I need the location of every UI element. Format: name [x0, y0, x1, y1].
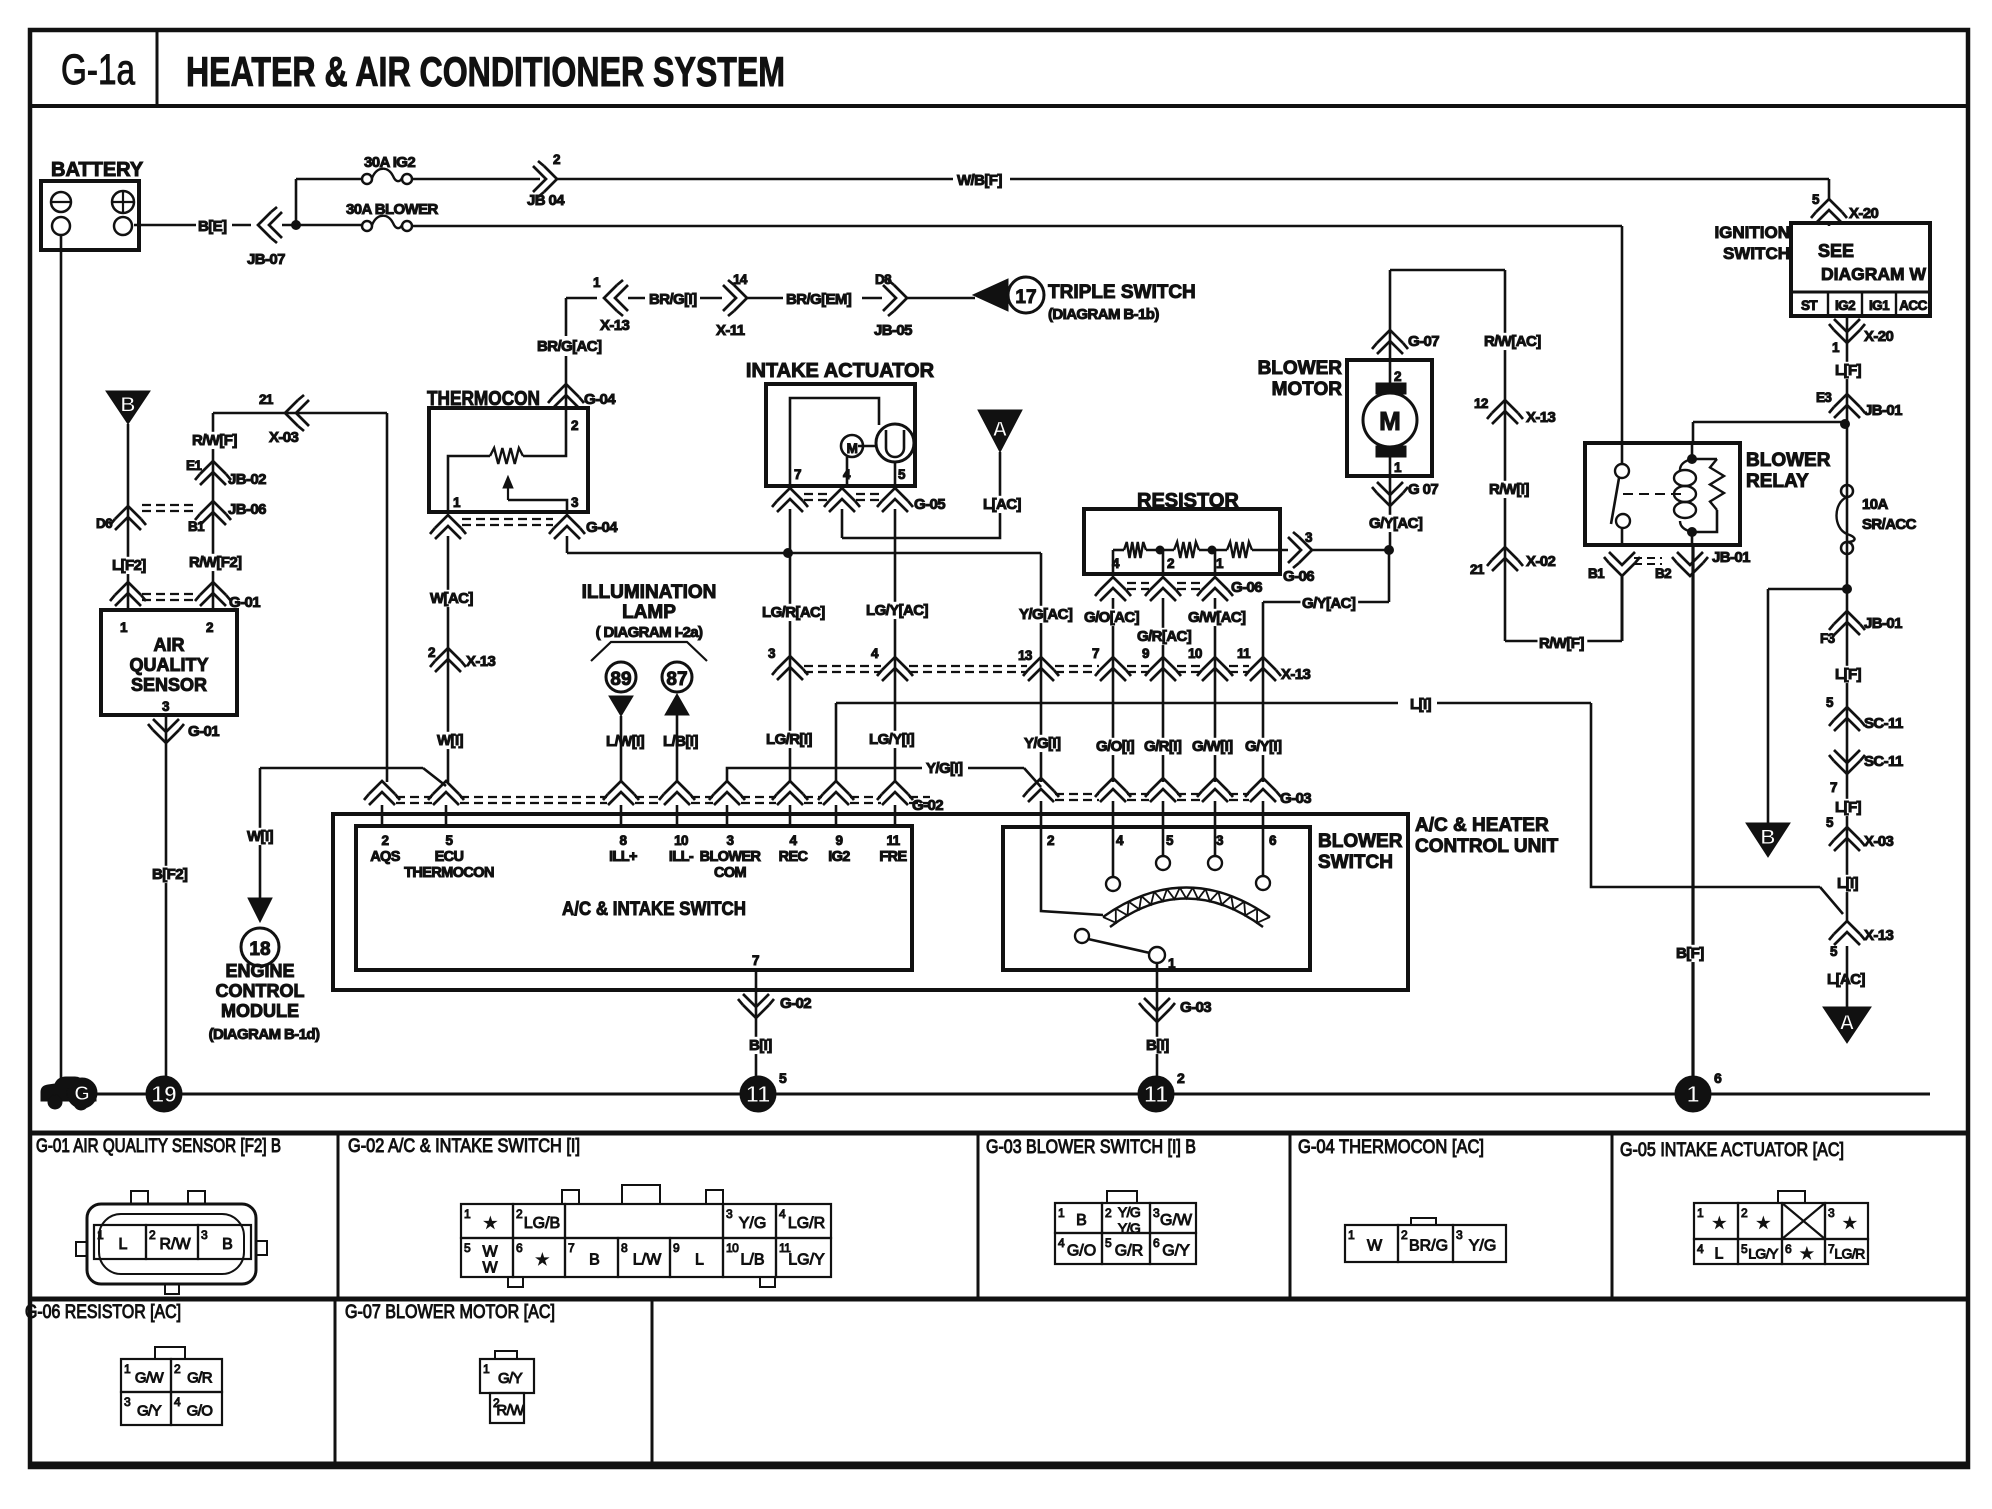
svg-text:4: 4	[871, 646, 879, 661]
svg-text:ECU: ECU	[435, 849, 464, 865]
svg-text:L/B: L/B	[740, 1252, 764, 1269]
svg-text:G-07: G-07	[1408, 333, 1439, 350]
svg-text:INTAKE ACTUATOR: INTAKE ACTUATOR	[746, 360, 935, 382]
svg-text:21: 21	[259, 392, 274, 407]
svg-text:L/W[I]: L/W[I]	[606, 733, 645, 750]
svg-text:1: 1	[593, 275, 601, 290]
svg-text:19: 19	[151, 1081, 177, 1107]
svg-text:2: 2	[1741, 1206, 1748, 1220]
svg-text:G-01 AIR QUALITY SENSOR [F2] B: G-01 AIR QUALITY SENSOR [F2] B	[36, 1136, 281, 1157]
svg-text:X-13: X-13	[600, 317, 630, 334]
svg-text:4: 4	[174, 1395, 181, 1409]
svg-text:1: 1	[1168, 956, 1176, 971]
svg-text:2: 2	[571, 418, 578, 433]
svg-text:M: M	[1379, 406, 1401, 436]
svg-text:G-07 BLOWER MOTOR [AC]: G-07 BLOWER MOTOR [AC]	[345, 1302, 555, 1323]
svg-text:MOTOR: MOTOR	[1272, 379, 1343, 400]
svg-text:L: L	[1715, 1246, 1724, 1263]
svg-text:A/C & INTAKE SWITCH: A/C & INTAKE SWITCH	[562, 899, 746, 920]
svg-text:G/O[I]: G/O[I]	[1096, 738, 1135, 755]
svg-text:R/W[F2]: R/W[F2]	[189, 554, 242, 571]
svg-text:1: 1	[124, 1362, 131, 1376]
svg-text:AIR: AIR	[154, 635, 185, 655]
svg-text:JB-02: JB-02	[228, 471, 266, 488]
svg-text:DIAGRAM W: DIAGRAM W	[1821, 264, 1926, 284]
svg-text:ACC: ACC	[1899, 298, 1927, 313]
svg-text:X-03: X-03	[1864, 833, 1894, 850]
svg-text:E3: E3	[1816, 390, 1832, 405]
svg-text:SWITCH: SWITCH	[1723, 244, 1790, 263]
svg-text:1: 1	[1058, 1206, 1065, 1220]
svg-text:JB 04: JB 04	[527, 192, 565, 209]
svg-text:11: 11	[1237, 646, 1251, 661]
svg-text:G/Y: G/Y	[137, 1403, 162, 1420]
svg-text:R/W[F]: R/W[F]	[1539, 635, 1584, 652]
svg-text:1: 1	[1348, 1228, 1355, 1242]
svg-text:A/C & HEATER: A/C & HEATER	[1415, 815, 1549, 836]
svg-text:3: 3	[1828, 1206, 1835, 1220]
svg-text:2: 2	[1394, 369, 1401, 384]
svg-text:Y/G: Y/G	[1469, 1238, 1497, 1255]
svg-text:G/W: G/W	[135, 1370, 165, 1387]
svg-text:L/B[I]: L/B[I]	[663, 733, 698, 750]
svg-text:B[F2]: B[F2]	[152, 866, 188, 883]
svg-text:B: B	[589, 1252, 600, 1269]
svg-text:3: 3	[726, 1207, 733, 1221]
svg-text:5: 5	[1812, 192, 1820, 207]
svg-text:F3: F3	[1820, 631, 1836, 646]
svg-text:LG/R: LG/R	[1834, 1246, 1865, 1262]
svg-text:B[E]: B[E]	[198, 218, 227, 235]
svg-text:G/W[I]: G/W[I]	[1192, 738, 1233, 755]
svg-text:11: 11	[746, 1081, 771, 1107]
svg-text:2: 2	[428, 645, 435, 660]
svg-text:LG/Y: LG/Y	[1748, 1246, 1779, 1262]
svg-text:3: 3	[1153, 1206, 1160, 1220]
svg-text:B[I]: B[I]	[749, 1037, 772, 1054]
svg-text:3: 3	[124, 1395, 131, 1409]
svg-text:D8: D8	[875, 272, 892, 287]
svg-text:LG/R[I]: LG/R[I]	[766, 731, 812, 748]
svg-text:G/O: G/O	[187, 1403, 213, 1420]
svg-text:4: 4	[843, 467, 851, 482]
svg-text:5: 5	[1826, 815, 1834, 830]
svg-text:30A IG2: 30A IG2	[364, 154, 415, 171]
svg-text:JB-07: JB-07	[247, 251, 285, 268]
svg-text:2: 2	[1167, 556, 1174, 571]
svg-text:G-01: G-01	[188, 723, 219, 740]
svg-text:SEE: SEE	[1818, 241, 1854, 261]
svg-text:7: 7	[794, 467, 801, 482]
svg-text:B[F]: B[F]	[1676, 945, 1704, 962]
svg-text:Y/G: Y/G	[1118, 1204, 1140, 1220]
svg-text:W: W	[482, 1244, 498, 1261]
svg-text:RELAY: RELAY	[1746, 471, 1809, 492]
svg-text:SWITCH: SWITCH	[1318, 852, 1393, 873]
svg-text:R/W: R/W	[496, 1402, 525, 1419]
svg-text:R/W[AC]: R/W[AC]	[1484, 333, 1541, 350]
svg-text:QUALITY: QUALITY	[130, 655, 209, 675]
svg-text:R/W[I]: R/W[I]	[1489, 481, 1529, 498]
svg-text:IGNITION: IGNITION	[1714, 223, 1790, 242]
svg-text:G/R[I]: G/R[I]	[1144, 738, 1182, 755]
svg-text:G/W: G/W	[1160, 1212, 1193, 1229]
svg-text:JB-06: JB-06	[228, 501, 266, 518]
svg-text:G/Y: G/Y	[498, 1370, 523, 1387]
svg-text:18: 18	[249, 939, 270, 960]
svg-text:A: A	[1839, 1011, 1854, 1034]
svg-text:★: ★	[536, 1252, 549, 1269]
svg-text:ILL+: ILL+	[609, 849, 637, 865]
svg-text:1: 1	[97, 1228, 104, 1242]
svg-text:7: 7	[568, 1241, 575, 1255]
svg-text:★: ★	[484, 1215, 497, 1232]
svg-text:7: 7	[1092, 646, 1099, 661]
svg-text:L[I]: L[I]	[1837, 875, 1859, 892]
svg-text:BLOWER: BLOWER	[1258, 358, 1343, 379]
svg-text:IG2: IG2	[828, 849, 850, 865]
svg-text:G/R: G/R	[187, 1370, 213, 1387]
svg-text:3: 3	[571, 495, 579, 510]
svg-text:L[F]: L[F]	[1835, 666, 1862, 683]
svg-text:3: 3	[768, 646, 776, 661]
svg-text:B2: B2	[1655, 566, 1671, 581]
svg-text:G/Y[I]: G/Y[I]	[1245, 738, 1282, 755]
svg-text:L: L	[695, 1252, 704, 1269]
svg-text:W: W	[482, 1260, 498, 1277]
svg-text:3: 3	[727, 833, 735, 848]
svg-text:B[I]: B[I]	[1146, 1037, 1169, 1054]
svg-text:12: 12	[1474, 396, 1488, 411]
svg-text:G/Y[AC]: G/Y[AC]	[1369, 515, 1423, 532]
svg-text:13: 13	[1018, 648, 1033, 663]
svg-text:4: 4	[1697, 1242, 1704, 1256]
svg-text:★: ★	[1800, 1246, 1813, 1263]
svg-text:30A BLOWER: 30A BLOWER	[346, 201, 439, 218]
svg-text:G-02: G-02	[780, 995, 811, 1012]
svg-text:SENSOR: SENSOR	[131, 675, 207, 695]
svg-text:7: 7	[1830, 780, 1837, 795]
svg-text:2: 2	[1177, 1070, 1185, 1086]
svg-text:3: 3	[1456, 1228, 1463, 1242]
svg-text:5: 5	[1826, 695, 1834, 710]
svg-text:BR/G[AC]: BR/G[AC]	[537, 338, 602, 355]
svg-text:X-13: X-13	[1864, 927, 1894, 944]
svg-text:L[F]: L[F]	[1835, 362, 1862, 379]
svg-text:5: 5	[898, 467, 906, 482]
svg-text:7: 7	[752, 953, 759, 968]
svg-text:1: 1	[1697, 1206, 1704, 1220]
svg-text:G-06 RESISTOR [AC]: G-06 RESISTOR [AC]	[25, 1302, 181, 1323]
svg-text:BR/G: BR/G	[1409, 1238, 1448, 1255]
svg-text:14: 14	[733, 272, 748, 287]
svg-text:Y/G: Y/G	[739, 1215, 767, 1232]
svg-text:B: B	[120, 393, 135, 416]
svg-text:10: 10	[726, 1241, 739, 1255]
svg-text:X-02: X-02	[1526, 553, 1556, 570]
svg-text:5: 5	[1741, 1242, 1748, 1256]
svg-text:★: ★	[1757, 1215, 1770, 1232]
svg-text:5: 5	[1166, 833, 1174, 848]
svg-text:E1: E1	[186, 458, 202, 473]
svg-text:TRIPLE SWITCH: TRIPLE SWITCH	[1048, 282, 1196, 303]
svg-text:87: 87	[666, 669, 687, 690]
svg-text:LG/B: LG/B	[524, 1215, 560, 1232]
svg-text:B: B	[1076, 1212, 1087, 1229]
svg-text:5: 5	[1105, 1236, 1112, 1250]
svg-text:B1: B1	[1588, 566, 1605, 581]
svg-text:G 07: G 07	[1408, 481, 1438, 498]
svg-text:3: 3	[1305, 530, 1313, 545]
svg-text:LG/R: LG/R	[788, 1215, 825, 1232]
svg-text:4: 4	[779, 1207, 786, 1221]
svg-text:X-11: X-11	[716, 322, 745, 339]
svg-text:BLOWER: BLOWER	[1746, 450, 1831, 471]
svg-text:JB-01: JB-01	[1864, 615, 1902, 632]
svg-text:G-03: G-03	[1280, 790, 1311, 807]
svg-text:BR/G[I]: BR/G[I]	[649, 291, 697, 308]
svg-text:11: 11	[886, 833, 900, 848]
svg-text:17: 17	[1015, 287, 1036, 308]
svg-text:2: 2	[1401, 1228, 1408, 1242]
svg-text:11: 11	[1144, 1081, 1169, 1107]
svg-text:CONTROL UNIT: CONTROL UNIT	[1415, 836, 1559, 857]
svg-text:5: 5	[1830, 944, 1838, 959]
svg-text:LAMP: LAMP	[622, 602, 676, 623]
svg-text:W/B[F]: W/B[F]	[957, 172, 1002, 189]
svg-text:BLOWER: BLOWER	[700, 849, 762, 865]
svg-text:89: 89	[610, 669, 631, 690]
svg-text:LG/Y[I]: LG/Y[I]	[869, 731, 915, 748]
svg-text:B: B	[1760, 826, 1775, 849]
svg-text:FRE: FRE	[879, 849, 907, 865]
svg-text:L[F2]: L[F2]	[112, 557, 146, 574]
svg-text:G-03 BLOWER SWITCH [I] B: G-03 BLOWER SWITCH [I] B	[986, 1137, 1196, 1158]
svg-text:1: 1	[1394, 460, 1402, 475]
svg-text:G-04: G-04	[584, 391, 616, 408]
svg-text:G-03: G-03	[1180, 999, 1211, 1016]
svg-text:3: 3	[201, 1228, 208, 1242]
svg-text:B: B	[222, 1236, 233, 1253]
svg-text:8: 8	[620, 833, 628, 848]
svg-text:1: 1	[453, 495, 461, 510]
svg-text:X-13: X-13	[466, 653, 496, 670]
svg-text:2: 2	[553, 152, 560, 167]
svg-text:X-03: X-03	[269, 429, 299, 446]
svg-text:G/O[AC]: G/O[AC]	[1084, 609, 1140, 626]
svg-text:1: 1	[483, 1362, 490, 1376]
svg-text:G-06: G-06	[1283, 568, 1314, 585]
svg-text:5: 5	[779, 1070, 787, 1086]
svg-text:1: 1	[464, 1207, 471, 1221]
svg-text:M: M	[847, 441, 858, 456]
svg-text:G: G	[74, 1083, 90, 1105]
svg-text:10: 10	[674, 833, 688, 848]
svg-text:MODULE: MODULE	[221, 1001, 299, 1021]
svg-text:3: 3	[1216, 833, 1224, 848]
svg-text:★: ★	[1843, 1215, 1856, 1232]
svg-text:G-02: G-02	[912, 797, 943, 814]
svg-text:6: 6	[1714, 1070, 1722, 1086]
svg-text:( DIAGRAM I-2a): ( DIAGRAM I-2a)	[596, 624, 703, 641]
svg-text:SC-11: SC-11	[1864, 753, 1903, 770]
svg-text:LG/Y[AC]: LG/Y[AC]	[866, 602, 928, 619]
svg-text:LG/R[AC]: LG/R[AC]	[762, 604, 825, 621]
svg-text:1: 1	[1832, 340, 1840, 355]
svg-text:LG/Y: LG/Y	[788, 1252, 825, 1269]
svg-text:R/W[F]: R/W[F]	[192, 432, 237, 449]
svg-text:10A: 10A	[1862, 496, 1888, 513]
svg-text:G-05: G-05	[914, 496, 945, 513]
svg-text:4: 4	[1116, 833, 1124, 848]
svg-text:2: 2	[382, 833, 389, 848]
svg-text:HEATER & AIR CONDITIONER SYSTE: HEATER & AIR CONDITIONER SYSTEM	[186, 48, 785, 95]
svg-text:2: 2	[206, 620, 213, 635]
svg-text:6: 6	[1785, 1242, 1792, 1256]
svg-text:SR/ACC: SR/ACC	[1862, 516, 1917, 533]
svg-text:G-04 THERMOCON [AC]: G-04 THERMOCON [AC]	[1298, 1137, 1484, 1158]
svg-text:ILLUMINATION: ILLUMINATION	[582, 582, 717, 603]
svg-text:CONTROL: CONTROL	[216, 981, 305, 1001]
svg-text:IG1: IG1	[1869, 298, 1890, 313]
svg-text:IG2: IG2	[1835, 298, 1855, 313]
svg-text:BR/G[EM]: BR/G[EM]	[786, 291, 852, 308]
svg-text:L[AC]: L[AC]	[983, 496, 1021, 513]
svg-text:L: L	[119, 1236, 128, 1253]
svg-text:R/W: R/W	[159, 1236, 191, 1253]
svg-text:1: 1	[1216, 556, 1224, 571]
svg-text:X-13: X-13	[1526, 409, 1556, 426]
svg-text:6: 6	[1153, 1236, 1160, 1250]
svg-text:THERMOCON: THERMOCON	[404, 865, 494, 881]
svg-text:4: 4	[1058, 1236, 1065, 1250]
svg-text:G/O: G/O	[1067, 1243, 1096, 1260]
svg-text:G-04: G-04	[586, 519, 618, 536]
svg-text:G-02 A/C & INTAKE SWITCH [I]: G-02 A/C & INTAKE SWITCH [I]	[348, 1136, 580, 1157]
svg-text:X-20: X-20	[1864, 328, 1894, 345]
svg-text:6: 6	[516, 1241, 523, 1255]
svg-text:2: 2	[1105, 1206, 1112, 1220]
svg-text:G/R[AC]: G/R[AC]	[1137, 628, 1192, 645]
svg-text:L[F]: L[F]	[1835, 799, 1862, 816]
svg-text:(DIAGRAM B-1b): (DIAGRAM B-1b)	[1048, 306, 1159, 323]
svg-text:9: 9	[836, 833, 843, 848]
svg-text:Y/G[AC]: Y/G[AC]	[1019, 606, 1073, 623]
svg-text:COM: COM	[714, 865, 747, 881]
svg-text:3: 3	[162, 699, 170, 714]
svg-text:G/Y[AC]: G/Y[AC]	[1302, 595, 1356, 612]
svg-text:W[I]: W[I]	[437, 732, 464, 749]
svg-text:★: ★	[1713, 1215, 1726, 1232]
svg-text:10: 10	[1188, 646, 1202, 661]
svg-text:G-1a: G-1a	[61, 46, 135, 94]
svg-text:JB-01: JB-01	[1864, 402, 1902, 419]
svg-text:W[I]: W[I]	[247, 828, 274, 845]
svg-text:ILL-: ILL-	[669, 849, 694, 865]
svg-text:D6: D6	[96, 516, 113, 531]
svg-text:1: 1	[1687, 1081, 1700, 1107]
svg-text:BATTERY: BATTERY	[51, 159, 144, 181]
svg-text:X-13: X-13	[1281, 666, 1311, 683]
svg-text:G/Y: G/Y	[1162, 1243, 1190, 1260]
svg-text:G-06: G-06	[1231, 579, 1262, 596]
svg-text:Y/G[I]: Y/G[I]	[926, 760, 963, 777]
svg-text:ENGINE: ENGINE	[225, 961, 294, 981]
svg-text:G/R: G/R	[1115, 1243, 1143, 1260]
svg-text:L[I]: L[I]	[1410, 696, 1432, 713]
svg-text:Y/G[I]: Y/G[I]	[1024, 735, 1061, 752]
svg-text:W[AC]: W[AC]	[430, 590, 473, 607]
svg-text:X-20: X-20	[1849, 205, 1879, 222]
svg-text:9: 9	[673, 1241, 680, 1255]
svg-text:4: 4	[790, 833, 798, 848]
svg-text:JB-05: JB-05	[874, 322, 912, 339]
svg-text:SC-11: SC-11	[1864, 715, 1903, 732]
svg-text:6: 6	[1269, 833, 1277, 848]
svg-text:2: 2	[149, 1228, 156, 1242]
svg-text:21: 21	[1470, 562, 1485, 577]
svg-text:B1: B1	[188, 519, 205, 534]
svg-text:2: 2	[1047, 833, 1054, 848]
svg-text:A: A	[992, 418, 1007, 441]
svg-text:8: 8	[621, 1241, 628, 1255]
svg-text:2: 2	[174, 1362, 181, 1376]
svg-text:(DIAGRAM B-1d): (DIAGRAM B-1d)	[209, 1026, 320, 1043]
svg-text:5: 5	[464, 1241, 471, 1255]
svg-text:9: 9	[1142, 646, 1149, 661]
svg-text:REC: REC	[779, 849, 809, 865]
svg-text:AQS: AQS	[370, 849, 401, 865]
svg-text:1: 1	[120, 620, 128, 635]
svg-text:G-05 INTAKE ACTUATOR [AC]: G-05 INTAKE ACTUATOR [AC]	[1620, 1140, 1844, 1161]
svg-text:JB-01: JB-01	[1712, 549, 1750, 566]
svg-text:BLOWER: BLOWER	[1318, 831, 1403, 852]
svg-text:G/W[AC]: G/W[AC]	[1188, 609, 1246, 626]
svg-text:ST: ST	[1801, 298, 1818, 313]
svg-text:2: 2	[516, 1207, 523, 1221]
svg-text:L/W: L/W	[633, 1252, 662, 1269]
svg-text:5: 5	[446, 833, 454, 848]
svg-text:W: W	[1367, 1238, 1383, 1255]
